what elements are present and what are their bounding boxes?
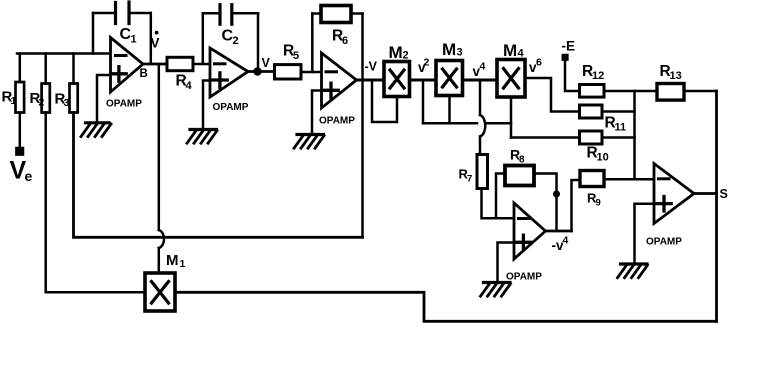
capacitor C1 <box>92 13 95 54</box>
svg-text:1: 1 <box>180 258 186 270</box>
ground U3 <box>297 133 324 136</box>
svg-text:2: 2 <box>39 97 45 109</box>
wire R2 down to M1 left input <box>46 113 145 293</box>
svg-text:7: 7 <box>467 174 472 185</box>
svg-text:1: 1 <box>11 95 17 107</box>
wire U2 output <box>248 70 275 73</box>
resistor R6 feedback <box>311 14 314 73</box>
svg-text:9: 9 <box>596 198 601 209</box>
op-amp U2 <box>210 48 248 97</box>
wire M4 output to R11 <box>525 78 580 112</box>
resistor R12 <box>580 85 605 98</box>
wire R10 to bus <box>602 136 635 139</box>
multiplier M1 <box>145 273 175 311</box>
svg-text:12: 12 <box>592 70 604 82</box>
multiplier M3 <box>436 61 463 96</box>
resistor R2 <box>44 54 47 84</box>
svg-text:4: 4 <box>480 61 486 73</box>
svg-text:S: S <box>720 187 728 201</box>
svg-text:4: 4 <box>186 80 193 92</box>
wire R3 down to -V node <box>74 113 363 238</box>
svg-text:10: 10 <box>597 152 609 164</box>
Ve source terminal arrow <box>16 148 23 155</box>
svg-text:-V: -V <box>365 60 378 74</box>
svg-text:4: 4 <box>563 235 569 247</box>
svg-text:OPAMP: OPAMP <box>213 102 249 113</box>
wire -V vertical <box>361 14 364 238</box>
svg-text:8: 8 <box>519 155 525 166</box>
svg-text:4: 4 <box>518 48 525 60</box>
op-amp U1 <box>111 38 144 93</box>
terminal -E <box>563 55 568 60</box>
wire U3 plus input to ground <box>312 91 322 135</box>
svg-text:M: M <box>166 252 179 269</box>
svg-text:OPAMP: OPAMP <box>319 116 355 127</box>
svg-text:6: 6 <box>536 57 542 69</box>
svg-text:V: V <box>262 56 271 70</box>
multiplier M2 <box>384 62 410 97</box>
wire U2 plus input to ground <box>203 81 210 129</box>
svg-text:13: 13 <box>670 70 682 82</box>
wire U3 output to M2 <box>357 79 385 82</box>
wire R8 feedback right leg <box>534 174 557 232</box>
wire U1 output <box>143 63 167 66</box>
svg-text:V: V <box>151 36 160 51</box>
resistor R7 <box>477 155 488 189</box>
wire M2 to M3 <box>410 79 437 82</box>
wire R11 to bus <box>602 110 635 113</box>
wire R7 to U4 minus input <box>482 189 515 219</box>
svg-text:B: B <box>140 68 148 80</box>
resistor R9 <box>580 171 604 187</box>
resistor R13 <box>657 84 684 101</box>
svg-text:M: M <box>389 43 403 62</box>
wire U5 plus input to ground <box>635 204 655 264</box>
ground U2 <box>190 128 217 131</box>
wire R4 to U2 <box>193 63 210 66</box>
wire v4 tap down to R7 with hop <box>479 80 482 115</box>
junction dot on R8 feedback <box>554 192 559 197</box>
wire -E to R12 <box>565 60 580 92</box>
multiplier M4 <box>497 60 525 98</box>
resistor R1 <box>19 54 22 83</box>
svg-text:11: 11 <box>615 122 627 134</box>
wire v2 line to R10 <box>511 136 580 139</box>
op-amp U4 <box>514 203 546 259</box>
wire R5 to U3 <box>301 71 322 74</box>
resistor R4 <box>167 57 193 70</box>
ground U1 <box>86 121 110 124</box>
svg-text:OPAMP: OPAMP <box>506 272 542 283</box>
wire bottom return to M1 <box>175 292 717 321</box>
ground U5 <box>621 262 648 265</box>
wire R9 to U5 minus input <box>604 178 654 181</box>
wire R8 feedback left leg <box>496 174 505 219</box>
resistor R10 <box>580 131 603 144</box>
svg-text:3: 3 <box>457 47 463 59</box>
resistor R8 <box>505 166 534 186</box>
ground U4 <box>484 281 511 284</box>
wire R12 to R13 node <box>604 90 657 93</box>
svg-text:OPAMP: OPAMP <box>106 99 142 110</box>
svg-text:-E: -E <box>562 39 576 54</box>
capacitor C2 <box>202 13 205 64</box>
resistor R5 <box>275 65 302 79</box>
svg-text:M: M <box>503 41 517 60</box>
wire U4 output <box>546 230 572 233</box>
wire output feedback vertical <box>715 91 718 321</box>
wire node B down to M1 with hop <box>158 64 161 230</box>
wire R13 to output line <box>684 90 717 93</box>
resistor R3 <box>72 54 75 84</box>
wire v2 node to M3 and M4 bottom inputs <box>422 80 425 123</box>
resistor R11 <box>580 105 603 118</box>
svg-text:M: M <box>442 40 456 59</box>
svg-text:1: 1 <box>131 34 137 46</box>
svg-text:2: 2 <box>424 57 430 69</box>
op-amp U3 <box>322 53 357 108</box>
wire U4 plus input to ground <box>498 243 515 283</box>
wire -v4 up to R9 <box>572 180 581 231</box>
svg-text:e: e <box>25 168 33 184</box>
wire summing bus vertical <box>633 91 636 179</box>
junction node V <box>255 69 261 75</box>
svg-text:6: 6 <box>342 35 348 47</box>
svg-text:2: 2 <box>233 35 239 47</box>
svg-text:3: 3 <box>64 97 70 109</box>
svg-text:5: 5 <box>293 50 299 62</box>
svg-text:2: 2 <box>403 50 409 62</box>
wire M2 squaring loop <box>372 80 397 122</box>
wire U1 plus input to ground <box>97 75 111 122</box>
wire U5 output s <box>694 192 717 195</box>
op-amp U5 <box>654 164 694 224</box>
svg-text:OPAMP: OPAMP <box>646 237 682 248</box>
wire input bus <box>17 52 111 55</box>
wire M3 to M4 <box>463 79 498 82</box>
